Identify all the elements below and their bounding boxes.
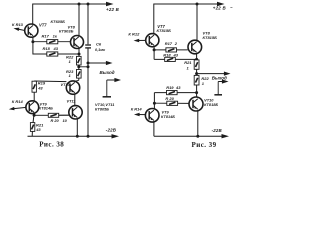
svg-text:КТ814Б: КТ814Б: [161, 114, 175, 119]
svg-text:-22В: -22В: [212, 128, 223, 133]
svg-text:Рис. 39: Рис. 39: [192, 141, 217, 149]
svg-text:+22 В: +22 В: [213, 6, 227, 11]
svg-text:43: 43: [173, 52, 179, 57]
svg-text:C6: C6: [96, 42, 102, 47]
svg-text:К R14: К R14: [12, 99, 24, 104]
svg-text:R17: R17: [42, 34, 50, 39]
svg-text:43: 43: [53, 46, 59, 51]
svg-text:Рис. 38: Рис. 38: [39, 140, 64, 148]
svg-text:R19: R19: [166, 85, 174, 90]
svg-text:VT10: VT10: [61, 82, 71, 87]
svg-text:0,1мк: 0,1мк: [95, 48, 106, 52]
svg-text:К R14: К R14: [131, 106, 143, 111]
svg-text:КТ815Б: КТ815Б: [203, 35, 218, 40]
svg-text:КТ814Б: КТ814Б: [39, 106, 53, 111]
svg-text:-22В: -22В: [106, 128, 117, 133]
svg-text:+22 В: +22 В: [106, 7, 120, 12]
svg-text:К R13: К R13: [12, 22, 24, 27]
svg-text:43: 43: [37, 86, 43, 91]
svg-text:R 20: R 20: [51, 118, 60, 123]
svg-text:43: 43: [175, 85, 181, 90]
svg-text:КТ903Б: КТ903Б: [59, 29, 74, 34]
svg-text:R 20: R 20: [165, 96, 174, 101]
svg-text:КТ605Б: КТ605Б: [51, 19, 66, 24]
svg-text:КТ818Б: КТ818Б: [204, 102, 218, 107]
svg-text:КТ815Б: КТ815Б: [157, 28, 172, 33]
svg-text:VT7: VT7: [39, 22, 47, 27]
svg-text:R18: R18: [163, 52, 171, 57]
svg-text:R18: R18: [43, 46, 51, 51]
svg-text:Выход: Выход: [100, 70, 115, 75]
svg-text:К R12: К R12: [128, 31, 140, 36]
svg-text:43: 43: [35, 127, 41, 132]
svg-text:R21: R21: [184, 60, 192, 65]
svg-text:Выход: Выход: [212, 76, 227, 81]
svg-text:R17: R17: [165, 41, 173, 46]
svg-text:VT11: VT11: [67, 99, 76, 104]
svg-text:КТ805Б: КТ805Б: [95, 107, 109, 112]
